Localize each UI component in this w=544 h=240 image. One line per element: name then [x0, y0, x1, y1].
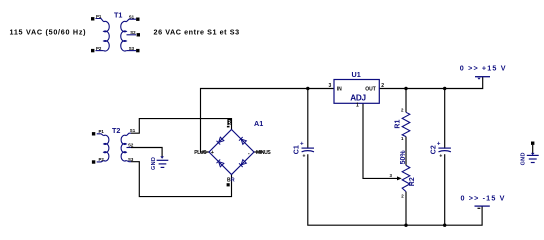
svg-text:R1: R1 — [394, 120, 401, 129]
svg-text:50%: 50% — [400, 150, 407, 165]
svg-text:IN: IN — [337, 86, 342, 92]
svg-text:0 >> +15 V: 0 >> +15 V — [460, 63, 507, 72]
svg-text:S1: S1 — [129, 15, 135, 20]
svg-text:GND: GND — [521, 152, 527, 165]
svg-text:+: + — [303, 154, 306, 160]
svg-text:R2: R2 — [409, 177, 416, 186]
svg-text:C1: C1 — [294, 145, 301, 154]
svg-text:115 VAC (50/60 Hz): 115 VAC (50/60 Hz) — [10, 27, 87, 36]
svg-text:S2: S2 — [130, 30, 136, 35]
svg-text:1: 1 — [356, 102, 359, 108]
svg-text:T2: T2 — [112, 126, 120, 135]
svg-text:3: 3 — [329, 83, 332, 89]
svg-text:P2: P2 — [96, 46, 102, 51]
svg-text:2: 2 — [381, 83, 384, 89]
svg-text:S1: S1 — [130, 128, 136, 133]
svg-text:S2: S2 — [128, 143, 134, 148]
svg-text:-: - — [248, 151, 250, 157]
svg-text:A1: A1 — [254, 119, 263, 128]
svg-text:OUT: OUT — [365, 86, 376, 92]
svg-text:P2: P2 — [99, 157, 105, 162]
svg-text:0 >> -15 V: 0 >> -15 V — [461, 194, 506, 203]
svg-text:MINUS: MINUS — [256, 150, 271, 156]
svg-text:ADJ: ADJ — [350, 93, 365, 102]
svg-text:+: + — [211, 150, 214, 156]
svg-text:PLUS: PLUS — [194, 150, 207, 156]
svg-text:+: + — [439, 154, 442, 160]
svg-text:C2: C2 — [431, 145, 438, 154]
svg-text:P1: P1 — [96, 14, 102, 19]
svg-text:GND: GND — [151, 157, 157, 170]
svg-text:U1: U1 — [352, 70, 361, 79]
svg-text:P1: P1 — [99, 129, 105, 134]
svg-text:S3: S3 — [129, 46, 135, 51]
svg-text:T1: T1 — [114, 10, 122, 19]
svg-text:26 VAC entre S1 et S3: 26 VAC entre S1 et S3 — [154, 27, 240, 36]
